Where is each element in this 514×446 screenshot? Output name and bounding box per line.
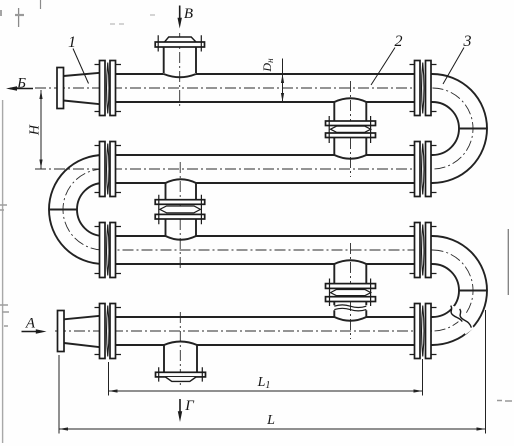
scan artifact: top-left blob: [15, 14, 24, 16]
scan artifact: right page edge line: [507, 229, 509, 295]
dimension Dn arrows: [281, 74, 284, 102]
flange pair run 2 right: white base: [415, 142, 431, 197]
centerline nozzle G vertical: [179, 312, 181, 387]
dimension L1 line: [109, 390, 423, 392]
nozzle G flange bolt ticks: [159, 367, 203, 381]
flange pair run 3 left: bolt lines: [95, 227, 122, 274]
scan artifact: faint marks upper area: [110, 15, 158, 24]
connector 3-4 bolt ticks: [330, 279, 371, 307]
connector 1-2 bolt ticks: [329, 116, 370, 143]
flange pair run 1 left: white base: [100, 61, 116, 116]
right lower U-bend inner arc: [433, 264, 460, 317]
dimension L line: [59, 428, 486, 430]
flow arrow V (top in): [179, 6, 181, 25]
flange pair run 2 left: bars: [100, 142, 116, 197]
flange pair run 2 left: gasket lens: [107, 144, 109, 195]
pipe run 1 bottom line: [99, 101, 433, 103]
flange pair run 3 right: bolt lines: [410, 227, 437, 274]
nozzle B end flange: [57, 68, 64, 109]
centerline nozzle V vertical: [179, 33, 181, 108]
svg-text:В: В: [184, 6, 193, 22]
left U-bend inner arc: [77, 183, 104, 236]
flange pair run 3 right: bars: [415, 223, 432, 278]
break wavy line B on right lower U-bend: [460, 309, 472, 328]
dimension H arrows: [39, 90, 42, 169]
flange pair run 4 right: bars: [415, 304, 432, 359]
svg-text:Г: Г: [184, 398, 195, 414]
nozzle A reducer cone bottom: [64, 343, 100, 347]
centerline arc right bend lower: [433, 250, 474, 331]
connector 2-3 gasket lens: [160, 206, 201, 213]
svg-text:Н: Н: [28, 124, 43, 136]
centerline run 2: [35, 168, 433, 170]
scan artifact: bottom-right dots: [497, 400, 512, 403]
right upper U-bend seam line: [459, 128, 487, 130]
dimension L extension lines: [59, 310, 486, 434]
connector 2-3 flange bars: [155, 200, 205, 219]
centerline connector 2-3 vertical: [179, 162, 181, 268]
svg-text:Б: Б: [16, 76, 26, 92]
nozzle V flange bar: [155, 42, 204, 47]
connector 2-3 upper saddle arc: [166, 179, 197, 183]
flange pair run 2 left: bolt lines: [95, 146, 122, 193]
right upper U-bend outer arc: [433, 74, 488, 183]
flow arrow A (left in): [22, 331, 43, 333]
break wavy lines on connector 3-4: [334, 305, 366, 311]
flange pair run 1 left: bolt lines: [95, 65, 122, 112]
flange pair run 4 right: white base: [415, 304, 431, 359]
nozzle B reducer cone bottom: [64, 101, 101, 105]
part label 2 leader: [371, 48, 395, 86]
flange pair run 4 left: bolt lines: [95, 308, 122, 355]
nozzle V saddle arc on run 1: [164, 74, 196, 77]
connector 2-3 lower saddle arc: [166, 236, 197, 240]
right upper U-bend inner arc: [433, 102, 460, 155]
nozzle G flange raised face: [166, 377, 197, 381]
flange pair run 3 left: white base: [100, 223, 116, 278]
nozzle V pipe sides: [164, 47, 196, 73]
pipe run 2 top line: [104, 154, 433, 156]
left U-bend seam line: [49, 209, 77, 211]
nozzle G saddle arc on run 4: [164, 342, 197, 346]
flange pair run 4 left: white base: [100, 304, 116, 359]
dimension L arrows: [59, 427, 486, 430]
svg-text:L: L: [266, 413, 275, 428]
connector 3-4 flange bars: [326, 284, 376, 302]
flange pair run 2 right: bolt lines: [410, 146, 437, 193]
pipe run 4 bottom line: [99, 344, 433, 346]
flange pair run 2 right: gasket lens: [422, 144, 424, 195]
flange pair run 4 right: bolt lines: [410, 308, 437, 355]
scan artifact: left page edge line: [2, 100, 4, 443]
nozzle A reducer cone top: [64, 316, 100, 320]
dimension L1 extension lines: [109, 359, 423, 396]
flange pair run 1 left: gasket lens: [107, 63, 109, 114]
centerline run 4: [55, 330, 433, 332]
dimension H line: [40, 90, 42, 169]
pipe run 1 top line: [99, 73, 433, 75]
centerline arc left bend: [63, 169, 104, 250]
break cutout on right lower U-bend: [449, 305, 474, 335]
dimension Dn line: [282, 59, 284, 103]
svg-text:А: А: [25, 316, 36, 332]
flange pair run 4 right: gasket lens: [422, 306, 424, 357]
left U-bend outer arc: [49, 155, 104, 264]
connector 3-4 pipe sides: [334, 264, 366, 318]
nozzle V flange raised face: [165, 37, 197, 42]
scan artifact: top tick: [40, 0, 42, 9]
flange pair run 2 left: white base: [100, 142, 116, 197]
scan artifact: left edge mark: [0, 10, 2, 16]
nozzle B reducer cone top: [64, 73, 101, 76]
part label 1 leader: [73, 49, 89, 84]
svg-text:1: 1: [68, 34, 76, 51]
flange pair run 4 left: bars: [100, 304, 116, 359]
flange pair run 4 left: gasket lens: [107, 306, 109, 357]
flange pair run 1 right: bolt lines: [410, 65, 437, 112]
centerline connector 1-2 vertical: [350, 81, 352, 177]
scan artifact: top-left vertical mark: [18, 8, 20, 27]
scan artifact: left margin blobs: [0, 205, 9, 326]
connector 1-2 pipe sides: [334, 102, 366, 156]
centerline arc right bend upper: [433, 88, 474, 169]
right lower U-bend seam line: [459, 290, 487, 292]
connector 3-4 lower saddle arc: [334, 317, 366, 321]
pipe run 4 top line: [99, 316, 433, 318]
connector 1-2 upper saddle arc: [334, 98, 366, 102]
connector 3-4 gasket lens: [331, 290, 371, 296]
flange pair run 1 right: gasket lens: [422, 63, 424, 114]
svg-text:2: 2: [395, 33, 403, 50]
flange pair run 1 left: bars: [100, 61, 116, 116]
dimension L1 arrows: [109, 389, 423, 392]
connector 1-2 lower saddle arc: [334, 155, 366, 159]
nozzle G flange bar: [156, 372, 206, 377]
pipe run 2 bottom line: [104, 182, 433, 184]
flow arrow B (left out): [10, 88, 33, 90]
flange pair run 3 left: gasket lens: [107, 225, 109, 276]
flow arrow G (bottom out): [179, 399, 181, 418]
flange pair run 3 left: bars: [100, 223, 116, 278]
right lower U-bend outer arc: [433, 236, 488, 345]
connector 2-3 pipe sides: [166, 183, 197, 237]
connector 2-3 bolt ticks: [159, 195, 202, 225]
centerline run 3: [104, 249, 433, 251]
flange pair run 3 right: gasket lens: [422, 225, 424, 276]
pipe run 3 top line: [104, 235, 433, 237]
flange pair run 3 right: white base: [415, 223, 431, 278]
flange pair run 1 right: white base: [415, 61, 431, 116]
part label 3 leader: [443, 48, 464, 85]
nozzle G pipe sides: [164, 345, 197, 373]
pipe run 3 bottom line: [104, 263, 433, 265]
connector 1-2 flange bars: [326, 121, 376, 138]
flange pair run 1 right: bars: [415, 61, 432, 116]
break wavy line A on right lower U-bend: [451, 306, 463, 322]
connector 3-4 upper saddle arc: [334, 260, 366, 264]
connector 1-2 gasket lens: [331, 126, 371, 132]
centerline connector 3-4 vertical: [350, 243, 352, 339]
centerline run 1: [35, 87, 433, 89]
nozzle A end flange: [58, 311, 65, 352]
flange pair run 2 right: bars: [415, 142, 432, 197]
nozzle V flange bolt ticks: [158, 35, 201, 51]
